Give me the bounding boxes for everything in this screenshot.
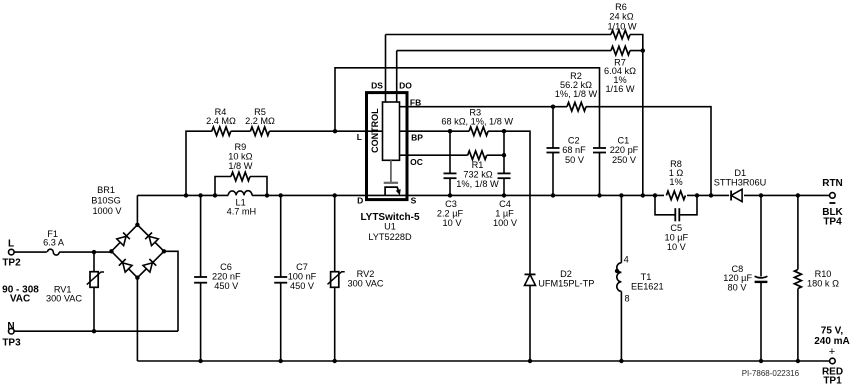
node BP C4 bbox=[502, 129, 506, 133]
svg-text:PI-7868-022316: PI-7868-022316 bbox=[742, 369, 800, 378]
wire C5 loop bbox=[655, 195, 697, 214]
node bottom D2 bbox=[528, 359, 532, 363]
capacitor C2 bbox=[547, 107, 560, 196]
gate link gray bbox=[384, 160, 398, 183]
wire DS riser bbox=[385, 35, 387, 103]
svg-text:VAC: VAC bbox=[10, 294, 30, 305]
node rail L1 right bbox=[265, 193, 269, 197]
inductor L1 bbox=[228, 191, 252, 196]
svg-text:TP3: TP3 bbox=[2, 338, 21, 349]
resistor R9 bbox=[231, 172, 250, 181]
wire DS top bbox=[386, 35, 643, 51]
svg-text:BR1: BR1 bbox=[97, 185, 115, 195]
capacitor C8 bbox=[755, 195, 768, 361]
svg-text:DS: DS bbox=[371, 81, 383, 91]
svg-text:TP2: TP2 bbox=[2, 257, 21, 268]
capacitor C3 bbox=[444, 131, 457, 195]
node RV1 top bbox=[92, 250, 96, 254]
svg-text:10 V: 10 V bbox=[443, 218, 463, 228]
node bottom T1 bbox=[619, 359, 623, 363]
svg-text:R10: R10 bbox=[815, 269, 832, 279]
svg-text:C4: C4 bbox=[499, 199, 511, 209]
svg-text:10 V: 10 V bbox=[667, 242, 687, 252]
node S rail C3 bbox=[448, 193, 452, 197]
wire R6R7 down bbox=[642, 51, 644, 196]
IC U1 control box bbox=[383, 102, 400, 160]
wire BP bbox=[400, 131, 531, 274]
wire bridge bottom to bottom rail bbox=[136, 278, 138, 361]
svg-text:1 µF: 1 µF bbox=[495, 209, 514, 219]
fuse F1 bbox=[47, 248, 59, 257]
svg-text:CONTROL: CONTROL bbox=[370, 108, 380, 153]
node rail C7 bbox=[279, 193, 283, 197]
terminal TP1 bbox=[830, 358, 836, 364]
svg-text:T1: T1 bbox=[641, 272, 652, 282]
svg-text:L: L bbox=[8, 238, 14, 249]
svg-text:1/16 W: 1/16 W bbox=[605, 84, 634, 94]
minus mark TP4 bbox=[829, 202, 835, 204]
node S rail C8 bbox=[759, 193, 763, 197]
svg-text:80 V: 80 V bbox=[728, 283, 748, 293]
node bridge top bbox=[135, 223, 139, 227]
svg-text:DO: DO bbox=[399, 81, 412, 91]
bridge BR1 diamond bbox=[111, 225, 164, 278]
node bridge bottom bbox=[135, 276, 139, 280]
svg-text:450 V: 450 V bbox=[290, 281, 315, 291]
node T1 phase dot bbox=[615, 269, 619, 273]
capacitor C1 bbox=[593, 148, 606, 195]
wire DO top bbox=[397, 50, 643, 52]
svg-text:6.3 A: 6.3 A bbox=[43, 238, 65, 248]
svg-text:1000 V: 1000 V bbox=[92, 206, 122, 216]
wire top rail bbox=[137, 194, 829, 196]
node R6R7 join bbox=[641, 48, 645, 52]
transformer T1 winding bbox=[617, 195, 622, 361]
svg-text:RTN: RTN bbox=[822, 178, 843, 189]
wire L to C1 riser bbox=[335, 68, 600, 148]
node bottom R10 bbox=[796, 359, 800, 363]
svg-text:2.2 MΩ: 2.2 MΩ bbox=[245, 116, 275, 126]
wire R4R5 line bbox=[186, 131, 383, 195]
svg-text:OC: OC bbox=[410, 157, 423, 167]
IC U1 outline bbox=[367, 93, 408, 200]
resistor R6 bbox=[611, 30, 630, 39]
node bridge right bbox=[162, 249, 166, 253]
diode BR1 lower-left bbox=[119, 259, 132, 272]
diode BR1 upper-right bbox=[145, 232, 158, 245]
svg-text:10 kΩ: 10 kΩ bbox=[228, 152, 252, 162]
svg-text:D: D bbox=[357, 195, 363, 205]
svg-text:FB: FB bbox=[410, 97, 421, 107]
node S rail R10 bbox=[796, 193, 800, 197]
resistor R5 bbox=[250, 127, 269, 136]
wire FB bbox=[400, 107, 712, 196]
svg-text:2.2 µF: 2.2 µF bbox=[437, 209, 464, 219]
terminal TP3 bbox=[9, 328, 15, 334]
svg-text:L: L bbox=[357, 132, 362, 142]
svg-text:220 pF: 220 pF bbox=[610, 145, 639, 155]
svg-text:24 kΩ: 24 kΩ bbox=[609, 12, 633, 22]
svg-text:N: N bbox=[7, 321, 14, 332]
wire OC bbox=[400, 154, 505, 156]
svg-text:C3: C3 bbox=[445, 199, 457, 209]
node RV1 bottom bbox=[92, 329, 96, 333]
wire bridge right to N bbox=[164, 251, 178, 331]
svg-text:68 kΩ, 1%, 1/8 W: 68 kΩ, 1%, 1/8 W bbox=[441, 117, 513, 127]
svg-text:TP1: TP1 bbox=[823, 376, 842, 387]
svg-text:R6: R6 bbox=[615, 2, 627, 12]
capacitor C4 bbox=[498, 131, 511, 195]
svg-text:BP: BP bbox=[411, 133, 423, 143]
node OC C4 bbox=[502, 153, 506, 157]
resistor R10 bbox=[794, 195, 801, 361]
node S rail C4 bbox=[502, 193, 506, 197]
svg-text:300 VAC: 300 VAC bbox=[46, 294, 82, 304]
node S rail R6R7 bbox=[641, 193, 645, 197]
diode BR1 upper-left bbox=[117, 232, 130, 245]
capacitor C5 bbox=[675, 208, 679, 221]
svg-text:STTH3R06U: STTH3R06U bbox=[714, 177, 767, 187]
svg-text:100 V: 100 V bbox=[493, 218, 518, 228]
svg-text:10 µF: 10 µF bbox=[664, 233, 688, 243]
node bottom RV2 bbox=[333, 359, 337, 363]
diode D2 bbox=[525, 274, 536, 361]
wire DO riser bbox=[396, 51, 398, 102]
terminal TP4 bbox=[830, 193, 836, 199]
svg-text:2.4 MΩ: 2.4 MΩ bbox=[206, 116, 236, 126]
svg-text:250 V: 250 V bbox=[612, 155, 637, 165]
wire bottom rail bbox=[137, 360, 829, 362]
svg-text:450 V: 450 V bbox=[214, 281, 239, 291]
diode BR1 lower-right bbox=[143, 259, 156, 272]
wire bridge top to rail bbox=[136, 195, 138, 224]
wire RV1 vertical bbox=[93, 252, 95, 331]
node bottom C7 bbox=[279, 359, 283, 363]
resistor R2 bbox=[567, 102, 586, 111]
svg-text:4.7 mH: 4.7 mH bbox=[227, 207, 257, 217]
svg-text:TP4: TP4 bbox=[823, 217, 842, 228]
svg-text:C2: C2 bbox=[568, 136, 580, 146]
node R8 left bbox=[653, 193, 657, 197]
resistor R3 bbox=[469, 127, 488, 136]
node R8 right bbox=[695, 193, 699, 197]
svg-text:1%: 1% bbox=[669, 177, 682, 187]
node L junction bbox=[333, 129, 337, 133]
svg-text:180 k Ω: 180 k Ω bbox=[807, 279, 839, 289]
svg-text:8: 8 bbox=[624, 294, 629, 304]
resistor R1 bbox=[468, 151, 487, 160]
svg-text:50 V: 50 V bbox=[565, 155, 585, 165]
svg-text:UFM15PL-TP: UFM15PL-TP bbox=[538, 279, 594, 289]
svg-text:1%, 1/8 W: 1%, 1/8 W bbox=[456, 179, 499, 189]
resistor R8 bbox=[664, 189, 687, 202]
node FB C2 bbox=[551, 105, 555, 109]
svg-text:1/10 W: 1/10 W bbox=[607, 22, 636, 32]
svg-text:+: + bbox=[829, 346, 835, 358]
node rail RV2 bbox=[333, 193, 337, 197]
wire L input bbox=[14, 251, 111, 253]
svg-text:U1: U1 bbox=[384, 222, 396, 232]
node S rail T1 bbox=[619, 193, 623, 197]
node bottom C8 bbox=[759, 359, 763, 363]
node BP C3 bbox=[448, 129, 452, 133]
svg-text:68 nF: 68 nF bbox=[562, 145, 586, 155]
node S rail C2 bbox=[551, 193, 555, 197]
svg-text:1%, 1/8 W: 1%, 1/8 W bbox=[555, 89, 598, 99]
svg-text:LYT5228D: LYT5228D bbox=[368, 232, 412, 242]
node S rail C1 bbox=[597, 193, 601, 197]
capacitor C6 bbox=[194, 195, 207, 361]
node rail L1 left bbox=[213, 193, 217, 197]
wire N input bbox=[14, 330, 178, 332]
svg-text:R1: R1 bbox=[472, 160, 484, 170]
wire R9 loop bbox=[215, 177, 267, 196]
varistor RV1 bbox=[87, 272, 104, 288]
svg-text:EE1621: EE1621 bbox=[631, 282, 664, 292]
node rail C6 bbox=[198, 193, 202, 197]
svg-text:S: S bbox=[411, 195, 417, 205]
svg-text:1/8 W: 1/8 W bbox=[228, 161, 252, 171]
mosfet Q internal bbox=[385, 187, 401, 195]
varistor RV2 bbox=[328, 195, 345, 361]
diode D1 bbox=[729, 189, 744, 202]
svg-text:B10SG: B10SG bbox=[91, 196, 121, 206]
resistor R4 bbox=[212, 127, 231, 136]
node bridge left bbox=[109, 249, 113, 253]
svg-text:C1: C1 bbox=[618, 136, 630, 146]
svg-text:4: 4 bbox=[624, 255, 629, 265]
resistor R7 bbox=[611, 46, 630, 55]
node rail R4 bbox=[184, 193, 188, 197]
node FB down bbox=[709, 193, 713, 197]
svg-text:C5: C5 bbox=[670, 223, 682, 233]
svg-text:R9: R9 bbox=[235, 142, 247, 152]
terminal TP2 bbox=[9, 249, 15, 255]
node bottom C6 bbox=[198, 359, 202, 363]
svg-text:75 V,: 75 V, bbox=[821, 326, 844, 337]
capacitor C7 bbox=[274, 195, 287, 361]
svg-text:300 VAC: 300 VAC bbox=[347, 279, 383, 289]
